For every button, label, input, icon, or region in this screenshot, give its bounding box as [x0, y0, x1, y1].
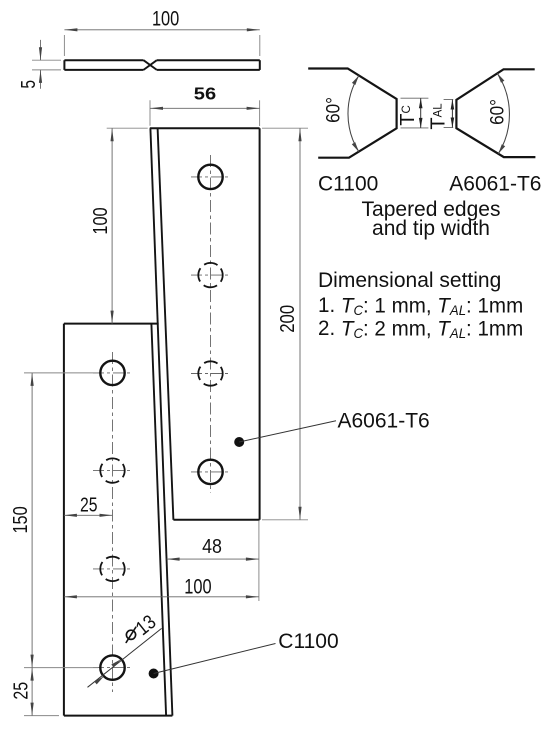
svg-text:100: 100: [152, 6, 179, 29]
svg-text:25: 25: [80, 492, 98, 516]
svg-text:C1100: C1100: [318, 173, 378, 196]
svg-text:100: 100: [184, 574, 211, 597]
svg-text:60°: 60°: [486, 99, 507, 125]
svg-text:C1100: C1100: [278, 630, 338, 653]
svg-text:A6061-T6: A6061-T6: [449, 173, 541, 196]
svg-text:TAL: TAL: [428, 103, 450, 130]
svg-text:2. TC: 2 mm, TAL: 1mm: 2. TC: 2 mm, TAL: 1mm: [318, 317, 523, 341]
svg-text:Dimensional setting: Dimensional setting: [318, 269, 501, 292]
svg-text:48: 48: [202, 536, 222, 558]
svg-text:100: 100: [88, 207, 111, 234]
svg-text:and tip width: and tip width: [372, 217, 490, 240]
svg-text:56: 56: [194, 84, 216, 103]
svg-text:A6061-T6: A6061-T6: [338, 409, 430, 432]
svg-text:150: 150: [8, 506, 31, 533]
svg-text:1. TC: 1 mm, TAL: 1mm: 1. TC: 1 mm, TAL: 1mm: [318, 294, 523, 318]
svg-text:5: 5: [17, 80, 39, 89]
svg-text:25: 25: [9, 682, 32, 700]
svg-text:60°: 60°: [322, 97, 343, 123]
svg-text:200: 200: [276, 305, 299, 333]
svg-text:TC: TC: [397, 105, 419, 126]
